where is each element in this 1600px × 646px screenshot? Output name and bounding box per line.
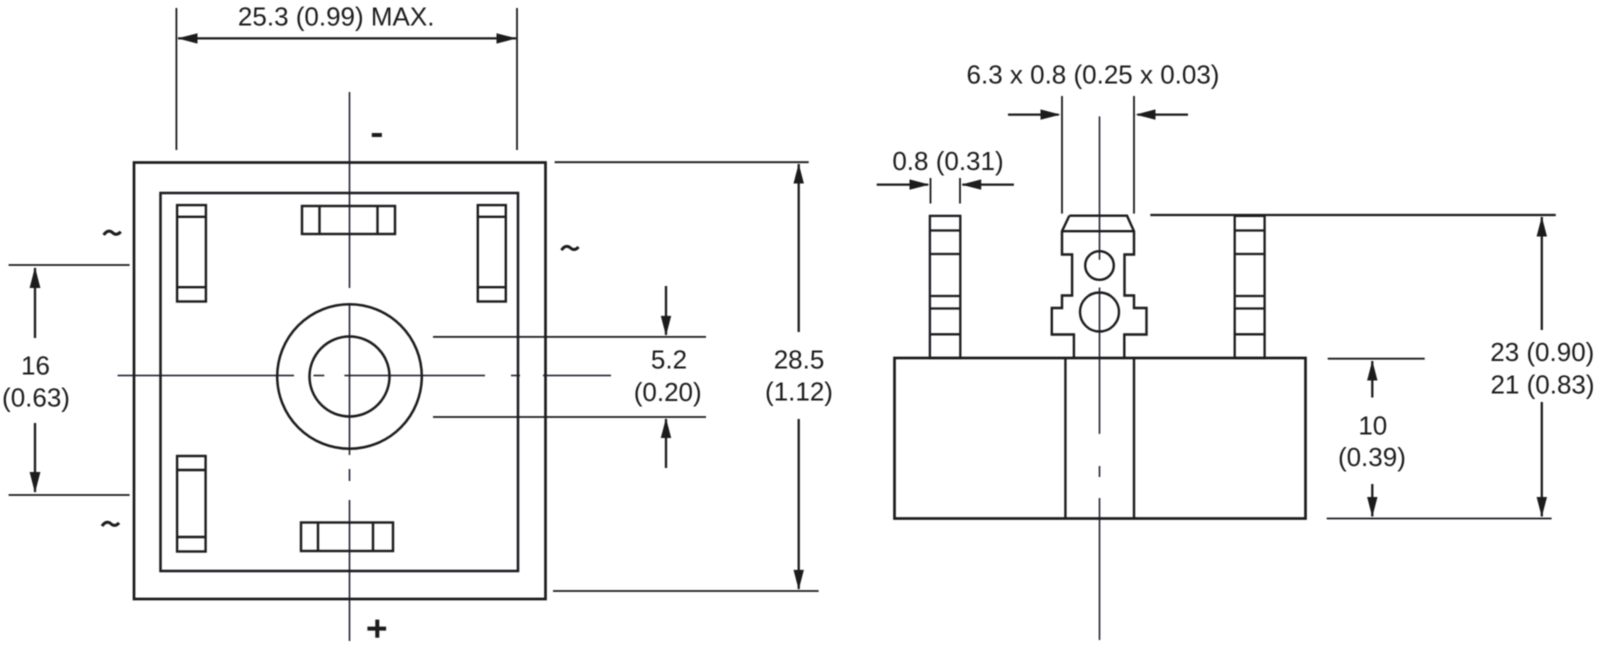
svg-text:(0.20): (0.20) xyxy=(634,377,702,407)
dimension 25.3 arrowheads xyxy=(178,33,517,43)
outer body outline (front view) xyxy=(134,163,546,600)
top reference line (side view) xyxy=(1150,214,1556,216)
mounting hole inner circle xyxy=(310,337,390,417)
dimension 28.5 extension lines xyxy=(553,162,819,591)
terminal bottom-center (plus) xyxy=(301,523,393,552)
left pin (side view) xyxy=(930,216,960,358)
dimension 6.3 arrow lines xyxy=(1008,113,1188,115)
dimension 6.3 extension lines xyxy=(1062,96,1134,214)
terminal top-left (AC) xyxy=(177,205,206,301)
slot lines through body (side view) xyxy=(1065,358,1134,519)
dimension 23/21 bottom extension line xyxy=(1327,518,1552,520)
positive polarity mark xyxy=(367,620,386,638)
dimension 28.5 arrowheads xyxy=(794,164,804,590)
terminal top-center (minus) xyxy=(302,206,395,234)
dimension 0.8 arrowheads xyxy=(910,179,982,189)
terminal bottom-left (AC) xyxy=(177,456,206,552)
dimension 28.5 arrow lines xyxy=(798,164,800,589)
dimension 16 extension lines xyxy=(9,265,130,495)
body outline (side view) xyxy=(895,358,1306,519)
vertical centerline (side view) xyxy=(1099,116,1101,640)
dimension 25.3 extension lines xyxy=(176,8,517,150)
dimension 0.8 extension lines xyxy=(931,178,961,204)
svg-text:(1.12): (1.12) xyxy=(765,376,833,406)
svg-text:16: 16 xyxy=(21,351,50,381)
terminal top-right (AC) xyxy=(478,205,506,301)
dimension 10 extension line xyxy=(1328,358,1425,360)
AC tilde top-left xyxy=(104,231,121,235)
faston tab small hole xyxy=(1085,251,1114,280)
svg-text:21 (0.83): 21 (0.83) xyxy=(1490,370,1594,400)
dimension 23/21 arrowheads xyxy=(1537,217,1547,518)
faston tab terminal outline (side view) xyxy=(1052,216,1147,358)
dimension 10 arrow lines xyxy=(1371,361,1373,517)
svg-text:(0.39): (0.39) xyxy=(1338,442,1406,472)
right pin (side view) xyxy=(1235,216,1265,358)
AC tilde right xyxy=(562,246,579,250)
negative polarity mark xyxy=(372,133,382,137)
svg-text:25.3 (0.99) MAX.: 25.3 (0.99) MAX. xyxy=(238,1,435,31)
svg-text:6.3 x 0.8 (0.25 x 0.03): 6.3 x 0.8 (0.25 x 0.03) xyxy=(967,60,1220,90)
svg-text:23 (0.90): 23 (0.90) xyxy=(1490,337,1594,367)
dimension 25.3 arrow line xyxy=(178,37,516,39)
dimension 16 arrowheads xyxy=(30,267,41,493)
AC tilde bottom-left xyxy=(102,522,119,526)
dimension 23/21 arrow lines xyxy=(1541,217,1543,517)
dimension 5.2 arrowheads xyxy=(661,316,671,438)
svg-text:10: 10 xyxy=(1358,410,1387,440)
vertical centerline (front view) xyxy=(349,92,351,641)
dimension 5.2 arrow lines xyxy=(665,286,667,468)
svg-text:(0.63): (0.63) xyxy=(2,382,70,412)
mounting hole outer circle xyxy=(277,304,422,449)
inner body ledge (front view) xyxy=(161,193,519,571)
horizontal centerline (front view) xyxy=(118,375,611,377)
dimension 5.2 extension lines xyxy=(433,337,706,417)
dimension 6.3 arrowheads xyxy=(1041,109,1156,119)
svg-text:0.8 (0.31): 0.8 (0.31) xyxy=(892,146,1003,176)
svg-text:5.2: 5.2 xyxy=(651,345,687,375)
dimension 0.8 arrow lines xyxy=(877,183,1014,185)
dimension 10 arrowheads xyxy=(1367,361,1377,518)
faston tab large hole xyxy=(1080,293,1119,332)
dimension 16 arrow lines xyxy=(34,268,36,492)
svg-text:28.5: 28.5 xyxy=(774,344,825,374)
